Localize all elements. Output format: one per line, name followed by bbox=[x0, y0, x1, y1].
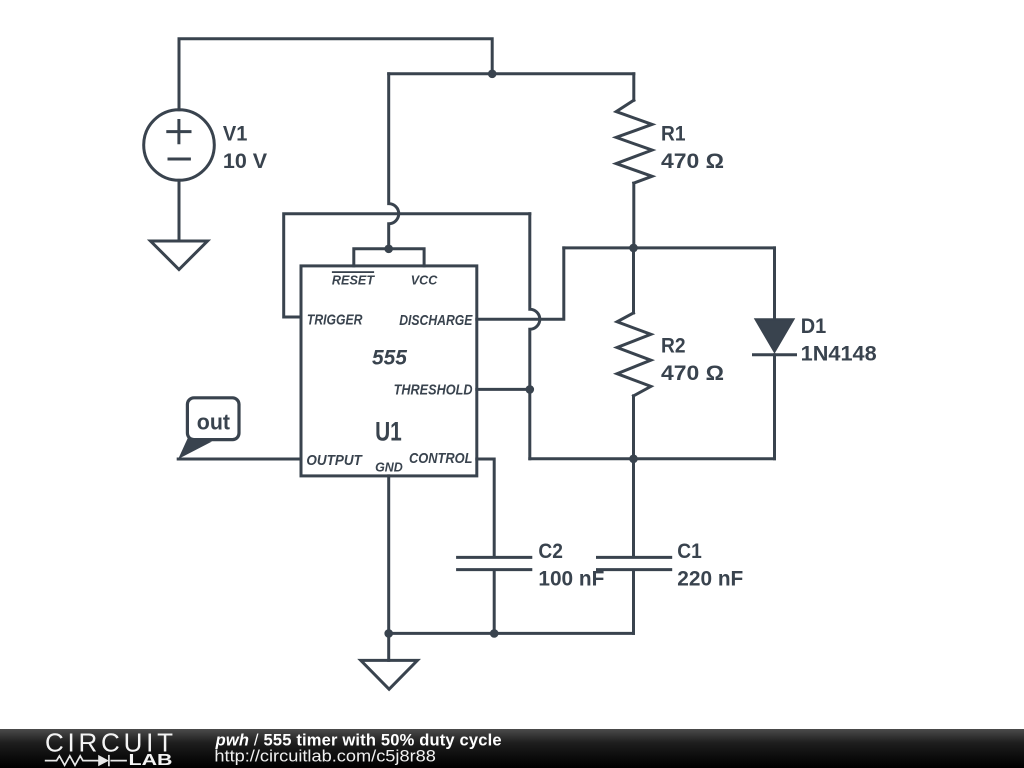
wire C2 bottom lead bbox=[493, 571, 496, 633]
diode D1 triangle bbox=[756, 319, 794, 352]
out flag tail bbox=[178, 438, 212, 460]
resistor R1 bbox=[616, 100, 652, 183]
wire bottom horizontal rail bbox=[530, 457, 775, 460]
wire ground rail bottom bbox=[389, 632, 634, 635]
wire U1 gnd pin down bbox=[387, 476, 390, 634]
ground symbol U1 bbox=[361, 660, 418, 689]
svg-text:220 nF: 220 nF bbox=[677, 567, 743, 591]
wire threshold bbox=[477, 388, 530, 391]
svg-text:OUTPUT: OUTPUT bbox=[306, 452, 363, 469]
logo diode triangle bbox=[98, 755, 109, 766]
svg-text:470 Ω: 470 Ω bbox=[661, 361, 724, 385]
reset overline bbox=[332, 271, 374, 273]
junction node reset-vcc bbox=[384, 245, 393, 254]
svg-text:470 Ω: 470 Ω bbox=[661, 149, 724, 173]
footer bar bbox=[0, 729, 1024, 768]
ground symbol V1 bbox=[151, 241, 208, 270]
svg-text:THRESHOLD: THRESHOLD bbox=[394, 381, 473, 398]
junction node C2 bottom bbox=[490, 629, 499, 638]
svg-text:C1: C1 bbox=[677, 539, 702, 563]
wire R1 top lead bbox=[632, 74, 635, 100]
out flag bubble bbox=[187, 398, 239, 440]
capacitor C1 plates bbox=[598, 557, 671, 569]
wire vcc node up with hop over trigger wire bbox=[389, 74, 399, 249]
V1 plus sign bbox=[168, 121, 190, 143]
capacitor C2 plates bbox=[458, 557, 531, 569]
svg-text:LAB: LAB bbox=[129, 752, 173, 768]
svg-text:100 nF: 100 nF bbox=[538, 567, 604, 591]
resistor R2 bbox=[617, 313, 651, 396]
wire R1 bottom lead bbox=[632, 183, 635, 248]
wire mid horizontal rail bbox=[564, 246, 775, 249]
voltage source V1 body bbox=[144, 110, 215, 181]
svg-text:RESET: RESET bbox=[332, 273, 375, 288]
svg-text:1N4148: 1N4148 bbox=[801, 342, 877, 366]
wire V1 top to node bbox=[179, 39, 492, 110]
svg-text:CONTROL: CONTROL bbox=[409, 450, 473, 467]
wire left vertical with hop over discharge bbox=[530, 214, 540, 459]
svg-text:http://circuitlab.com/c5j8r88: http://circuitlab.com/c5j8r88 bbox=[214, 748, 436, 766]
junction node threshold bbox=[526, 385, 535, 394]
wire V1 bottom to ground bbox=[178, 180, 181, 241]
logo resistor-diode glyph bbox=[45, 755, 127, 766]
junction node R2-C1 bbox=[629, 455, 638, 464]
wire gnd stub to ground symbol bbox=[387, 633, 390, 660]
svg-text:V1: V1 bbox=[223, 122, 248, 146]
svg-text:C2: C2 bbox=[538, 539, 563, 563]
wire discharge to mid rail bbox=[477, 248, 564, 319]
wire D1 top lead bbox=[773, 248, 776, 320]
op-amp box U1 555 timer bbox=[301, 266, 477, 476]
svg-text:R1: R1 bbox=[661, 121, 686, 145]
wire R2 top lead bbox=[632, 248, 635, 313]
junction node gnd rail left bbox=[384, 629, 393, 638]
wire trigger loop bbox=[284, 214, 530, 317]
svg-text:VCC: VCC bbox=[411, 273, 438, 288]
svg-text:DISCHARGE: DISCHARGE bbox=[399, 312, 473, 329]
wire control to C2 bbox=[477, 459, 494, 556]
V1 minus sign bbox=[169, 158, 189, 161]
svg-text:U1: U1 bbox=[375, 417, 402, 447]
svg-text:out: out bbox=[197, 410, 231, 435]
svg-text:555: 555 bbox=[372, 346, 408, 370]
svg-text:R2: R2 bbox=[661, 334, 686, 358]
wire D1 bottom lead bbox=[773, 355, 776, 459]
junction node top bbox=[488, 70, 497, 79]
svg-text:D1: D1 bbox=[801, 314, 827, 338]
wire top horizontal to R1 bbox=[389, 72, 634, 75]
diode D1 cathode bar bbox=[754, 353, 796, 356]
svg-text:10 V: 10 V bbox=[223, 149, 268, 173]
wire reset-vcc tie bar bbox=[354, 249, 424, 266]
wire R2 bottom lead bbox=[632, 396, 635, 459]
svg-text:TRIGGER: TRIGGER bbox=[307, 311, 363, 328]
wire C1 top lead bbox=[632, 459, 635, 556]
junction node R1 bottom bbox=[629, 244, 638, 253]
svg-text:GND: GND bbox=[375, 459, 403, 474]
wire output bbox=[178, 458, 301, 461]
wire C1 bottom lead bbox=[632, 571, 635, 633]
